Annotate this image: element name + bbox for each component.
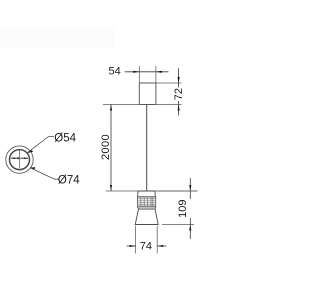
canopy rectangle (139, 83, 156, 105)
lamp shade cone (135, 209, 158, 225)
svg-text:Ø74: Ø74 (58, 174, 80, 186)
top view outer circle (shade rim) (6, 146, 33, 173)
dim 74 arrows (130, 245, 136, 247)
dim 109 arrows (189, 185, 191, 191)
lamp head neck band (137, 207, 155, 209)
leader Ø54 (28, 137, 55, 153)
dim 54 line (125, 71, 169, 73)
svg-text:Ø54: Ø54 (54, 133, 76, 145)
lamp head bottom extension line (y191) (106, 190, 198, 192)
top view inner ring (body) (10, 150, 30, 170)
dim 109 line segments + tails (189, 178, 191, 239)
vertical center line (19, 150, 21, 168)
svg-text:72: 72 (173, 88, 185, 100)
dim 74 line tails (127, 245, 167, 247)
lamp head ribbed block (137, 197, 155, 207)
svg-text:54: 54 (108, 66, 120, 78)
leader Ø74 (31, 168, 59, 179)
svg-text:109: 109 (177, 200, 189, 218)
dim 72 arrows (178, 77, 180, 83)
dim 109 extension lines (158, 191, 198, 225)
dim 74 extension lines (136, 226, 158, 254)
diameter line with arrows inside circle (11, 157, 28, 159)
dim 72 line segments + tails (178, 68, 180, 115)
dim 72 extension lines (103, 83, 182, 105)
dim 54 arrows (133, 71, 139, 73)
dim 2000 line (110, 105, 112, 192)
center mark (17, 157, 19, 159)
lamp head top cap (138, 191, 156, 197)
faint background band top-left (0, 28, 115, 48)
svg-text:74: 74 (140, 241, 152, 253)
cable (146, 105, 148, 192)
dim 2000 arrows (110, 105, 112, 111)
dim 54 extension lines (139, 66, 156, 83)
svg-text:2000: 2000 (100, 134, 112, 160)
